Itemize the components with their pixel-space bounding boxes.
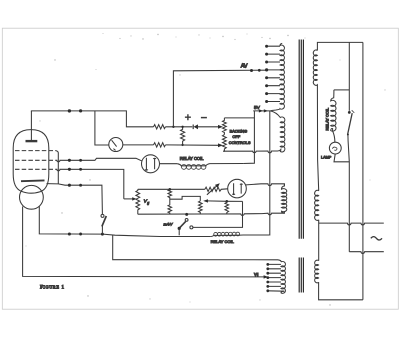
switch S2 contact xyxy=(190,226,193,229)
node grid2 connector dots xyxy=(68,159,71,162)
AC line lower (hop over right rail) xyxy=(349,252,384,254)
node cathode row connector dots xyxy=(68,184,71,187)
arrow into backing-off pot 2 xyxy=(218,143,223,147)
wire drop to meter M1 xyxy=(95,111,109,145)
tube V3 xyxy=(228,179,247,198)
wire V2 to relay coil 1 xyxy=(160,163,177,165)
transformer T1 winding A xyxy=(270,111,285,152)
transformer T2 tapped secondary xyxy=(281,262,285,294)
wire box right edge / relay coil 1 riser xyxy=(243,111,254,164)
wire primary to AC line junction xyxy=(318,220,320,261)
node grid3 connector dots xyxy=(68,168,71,171)
node top row connector dots xyxy=(68,109,71,112)
label minus xyxy=(201,117,207,119)
resistor R1 xyxy=(154,125,166,129)
switch S3 xyxy=(348,111,351,114)
wire switch contact drop xyxy=(348,134,349,251)
tube V1 top-cap lead xyxy=(30,111,32,141)
wire row5 (Vg bottom rail) xyxy=(138,211,285,215)
node switch1 bottom junction xyxy=(101,233,104,236)
wire box bottom to winding A bottom (hops over x254.4 and rail) xyxy=(223,149,281,153)
transformer T1 tapped secondary winding xyxy=(270,43,284,111)
svg-text:OFF: OFF xyxy=(232,134,240,139)
tube V2 (gas tube) xyxy=(142,155,160,173)
node row4 Ra junction xyxy=(169,188,172,191)
meter M1 xyxy=(109,138,123,152)
wire heater lead left (to VI row) xyxy=(23,207,266,277)
taps of secondary winding xyxy=(267,46,280,101)
tube V1 cathode bar xyxy=(21,179,45,182)
relay coil RC3 xyxy=(331,90,336,131)
svg-text:BACKING: BACKING xyxy=(230,128,248,133)
switch S3 bottom contact dot xyxy=(347,134,349,136)
right mains rail xyxy=(362,42,364,299)
svg-text:LAMP: LAMP xyxy=(321,156,332,160)
taps of T2 secondary xyxy=(268,264,284,291)
node AV wire connector dots xyxy=(250,69,253,72)
wire grid3 row (hop over grid1 drop) xyxy=(56,169,124,199)
wire T2 primary return xyxy=(319,282,363,300)
backing-off controls box top xyxy=(224,117,254,119)
relay coil RC2 xyxy=(210,235,269,237)
wire AV riser xyxy=(173,70,265,127)
transformer T2 primary xyxy=(315,260,319,283)
switch S2 pivot node xyxy=(185,213,188,216)
resistor R2 xyxy=(154,143,166,147)
svg-text:VI: VI xyxy=(254,272,258,277)
wire relay coil 3 top jog xyxy=(334,89,349,91)
svg-text:RELAY COIL: RELAY COIL xyxy=(211,239,235,244)
tube V1 envelope xyxy=(13,130,49,210)
resistor Rv (vertical, R1 row to R2 row) xyxy=(181,127,185,145)
tube V1 grid 1 (dashed) xyxy=(15,150,56,152)
svg-text:RELAY COIL: RELAY COIL xyxy=(324,107,329,130)
node Rc top xyxy=(226,200,229,203)
svg-text:FIGURE 1: FIGURE 1 xyxy=(40,284,65,290)
wire grid2 row (hop over grid1 drop) xyxy=(56,158,142,162)
core of transformer T2 xyxy=(299,258,303,293)
potentiometer R5 (row4, with diagonal arrow) xyxy=(205,187,228,191)
wire R1 to diode xyxy=(166,126,193,128)
potentiometer Vg xyxy=(136,189,140,214)
wire grid1 to cathode line xyxy=(56,151,58,184)
wire V3 anode to winding B top (hop over rail) xyxy=(246,184,285,186)
wire row4 (Vg top to pot R5) xyxy=(138,188,205,190)
wire relay coil 3 to lamp xyxy=(333,131,335,142)
T2 tap dots xyxy=(266,263,269,292)
svg-text:CONTROLS: CONTROLS xyxy=(229,140,251,145)
svg-text:g: g xyxy=(147,201,149,205)
tube V1 anode bar xyxy=(26,140,38,142)
wire meter M1 to R2 xyxy=(123,144,154,146)
tube V1 grid 3 (dashed) xyxy=(15,168,56,170)
diode D1 xyxy=(194,124,198,129)
label plus xyxy=(185,114,191,120)
arrow into backing-off pot 1 xyxy=(218,125,223,129)
wire top-cap row xyxy=(31,111,153,127)
HT rail (5V node down to relay coil 2) xyxy=(269,111,271,235)
wire 5V with arrows xyxy=(253,110,270,112)
wire R2 to pot arrow xyxy=(166,144,220,146)
resistor Rc xyxy=(225,201,229,214)
resistor Ra lower xyxy=(168,199,172,214)
wire HT return drop to bottom transformer row xyxy=(113,235,282,262)
wire Ra tap step to Rb xyxy=(170,196,201,201)
wire diode to pot arrow xyxy=(197,126,219,128)
transformer T1 primary section 1 xyxy=(313,50,317,87)
svg-text:mA/V: mA/V xyxy=(164,223,174,227)
svg-text:AV: AV xyxy=(241,64,248,70)
tap dots xyxy=(265,45,268,103)
wire top mains loop xyxy=(317,42,363,50)
lamp L1 xyxy=(329,142,341,154)
wire cathode row xyxy=(47,184,103,215)
backing-off pot 2 xyxy=(223,135,227,152)
AC line upper (hops over lamp drop and right rail) xyxy=(319,223,384,225)
switch S2 xyxy=(185,219,188,222)
arrow VI tap xyxy=(264,275,269,278)
wire S2 contact to Rb wiper riser xyxy=(193,201,243,227)
relay coil RC1 xyxy=(177,164,243,166)
arrow grid3 to Vg pot wiper xyxy=(124,198,134,200)
wire heater lead right (to switch row) xyxy=(39,207,210,237)
tube V1 grid 2 (dashed) xyxy=(15,159,56,161)
wire switch riser xyxy=(348,42,350,110)
AC source symbol xyxy=(371,237,382,240)
switch S1 xyxy=(101,226,103,234)
svg-text:RELAY COIL: RELAY COIL xyxy=(180,156,204,161)
core of transformer T1 xyxy=(299,40,303,239)
resistor Rb xyxy=(199,201,203,214)
transformer T1 winding B xyxy=(282,184,287,213)
arrow wiper into Rb xyxy=(203,199,208,202)
backing-off pot 1 xyxy=(223,118,227,135)
node AV junction xyxy=(172,126,174,128)
wire between primary sections xyxy=(317,87,318,191)
node heater row connector dots xyxy=(68,232,71,235)
resistor Ra upper xyxy=(168,189,172,199)
transformer T1 primary section 2 xyxy=(315,190,319,220)
wire lamp bottom to switch branch xyxy=(334,154,349,162)
